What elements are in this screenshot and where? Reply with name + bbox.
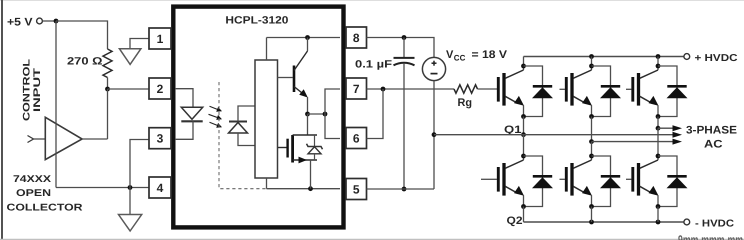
wire buffer output <box>82 138 107 140</box>
svg-text:CC: CC <box>454 53 466 62</box>
node +HVDC terminal <box>684 54 690 60</box>
junction emitter bottom cell 1 <box>521 204 526 209</box>
wire diode branch top cell 3 <box>658 66 677 117</box>
label HCPL-3120 <box>225 15 288 27</box>
wire emitter node to MOSFET drain <box>307 114 309 135</box>
wire internal VCC rail to pin 8 <box>267 37 341 39</box>
svg-text:2: 2 <box>157 82 164 96</box>
junction phase tap cell 3 <box>656 126 661 131</box>
wire pin 5 to VCC return <box>367 188 435 190</box>
wire amp bottom stub <box>266 178 268 189</box>
junction cap top <box>402 35 407 40</box>
wire pin 1 to ground symbol <box>130 39 149 49</box>
wire emitter drop top cell 2 <box>591 105 593 116</box>
wire 3-phase line B <box>592 139 683 145</box>
label COLLECTOR <box>7 202 83 213</box>
junction rail col2 bottom <box>589 220 594 225</box>
wire diode branch bottom cell 3 <box>658 156 677 207</box>
svg-text:3-PHASE: 3-PHASE <box>686 125 737 137</box>
svg-text:1: 1 <box>157 32 164 46</box>
wire emitter drop top cell 3 <box>657 105 659 116</box>
junction emitter top cell 1 <box>521 114 526 119</box>
wire emitter drop bottom cell 3 <box>657 195 659 206</box>
transistor IGBT bottom cell 3 <box>633 160 659 196</box>
wire emitter drop bottom cell 1 <box>523 195 525 206</box>
svg-text:7: 7 <box>353 82 360 96</box>
junction pin4 node <box>128 185 133 190</box>
diode D11 freewheel top <box>532 86 553 98</box>
wire amp to NPN base <box>278 77 293 79</box>
wire to phase line cell 1 <box>523 117 525 135</box>
wire MOSFET source to VEE rail <box>310 160 312 189</box>
svg-text:- HVDC: - HVDC <box>695 219 734 230</box>
junction phase tap cell 1 <box>521 132 526 137</box>
svg-text:= 18 V: = 18 V <box>472 49 508 61</box>
light arrow 3 <box>210 122 223 127</box>
pin 4 <box>149 177 171 198</box>
junction +5V <box>54 19 59 24</box>
junction output riser <box>323 112 328 117</box>
label Q2 <box>507 215 523 227</box>
resistor R1 270ohm <box>103 49 112 78</box>
op-amp U1 HCPL-3120 body outline <box>173 7 343 228</box>
capacitor C1 0.1uF <box>394 58 415 65</box>
svg-text:INPUT: INPUT <box>32 68 43 112</box>
pin 2 <box>149 78 171 99</box>
border frame left <box>1 0 3 240</box>
junction diode branch bottom cell 1 <box>521 154 526 159</box>
diode D13 freewheel top <box>667 86 688 98</box>
label Rg <box>458 97 473 109</box>
pin 6 <box>346 128 367 149</box>
svg-text:0.1 µF: 0.1 µF <box>355 58 393 70</box>
light arrow 2 <box>209 114 223 120</box>
transistor IGBT bottom cell 2 <box>566 160 592 196</box>
svg-text:74XXX: 74XXX <box>13 174 52 185</box>
wire diode branch top cell 2 <box>592 66 611 117</box>
junction diode branch bottom cell 3 <box>656 154 661 159</box>
photodiode D2 <box>229 122 248 134</box>
junction pin2 node <box>105 87 110 92</box>
node control input arrow <box>28 136 34 143</box>
wire gate stub bottom cell 3 <box>626 178 632 180</box>
cropped caption fragment <box>678 233 743 240</box>
svg-text:9mm-mmm-mm: 9mm-mmm-mm <box>678 233 743 240</box>
border frame top <box>0 0 744 2</box>
label CONTROL INPUT <box>22 59 44 121</box>
wire pin 6 riser <box>367 89 384 139</box>
junction diode branch top cell 2 <box>589 64 594 69</box>
wire +5V rail to resistor <box>56 21 108 49</box>
junction phase A tap <box>432 132 437 137</box>
wire pin2 to LED anode <box>175 89 193 108</box>
wire emitter node to output riser <box>308 113 326 115</box>
wire Q2 gate stub <box>481 178 497 180</box>
node -HVDC terminal <box>684 219 690 225</box>
label OPEN <box>16 188 51 199</box>
wire to phase line cell 3 <box>657 117 659 129</box>
wire to phase line cell 2 <box>591 117 593 142</box>
junction rail col3 top <box>656 54 661 59</box>
pin 3 <box>149 128 171 149</box>
diode D21 freewheel bottom <box>532 176 553 188</box>
svg-text:HCPL-3120: HCPL-3120 <box>225 15 288 27</box>
transistor IGBT top cell 3 <box>633 70 659 106</box>
buffer U2 74XXX open-collector gate <box>45 117 82 159</box>
border frame bottom <box>0 238 744 240</box>
wire pin2 node to pin 2 <box>108 88 150 90</box>
wire Rg to Q1 gate <box>478 88 499 90</box>
svg-text:270 Ω: 270 Ω <box>67 56 103 68</box>
wire pin2 node down to buffer output <box>107 89 109 139</box>
svg-text:AC: AC <box>704 139 723 151</box>
wire collector drop top cell 2 <box>591 57 593 71</box>
svg-text:CONTROL: CONTROL <box>22 59 33 121</box>
wire output riser pin7-pin6 <box>325 89 340 139</box>
diode D12 freewheel top <box>600 86 621 98</box>
svg-text:Rg: Rg <box>458 97 473 109</box>
wire 3-phase line A <box>434 132 682 138</box>
junction rail col2 top <box>589 54 594 59</box>
transistor Q4 MOSFET pull-down <box>278 135 317 163</box>
wire +5V to junction <box>43 20 57 22</box>
label + HVDC <box>695 53 738 64</box>
wire resistor to pin2 junction <box>107 78 109 90</box>
wire emitter drop bottom cell 2 <box>591 195 593 206</box>
wire pin 8 to VCC source <box>367 38 435 58</box>
wire gate stub top cell 3 <box>626 88 632 90</box>
junction internal VCC <box>305 35 310 40</box>
junction diode branch top cell 3 <box>656 64 661 69</box>
junction diode branch bottom cell 2 <box>589 154 594 159</box>
wire pin4 net horizontal <box>56 187 149 189</box>
wire to -HVDC rail cell 1 <box>523 207 525 223</box>
wire +HVDC rail <box>524 56 685 58</box>
diode D22 freewheel bottom <box>600 176 621 188</box>
wire to -HVDC rail cell 2 <box>591 207 593 223</box>
wire pin3 riser <box>130 140 149 188</box>
light arrow 1 <box>210 106 223 111</box>
wire cap bottom to VEE rail <box>403 64 405 189</box>
node +5V terminal <box>7 17 42 29</box>
wire to -HVDC rail cell 3 <box>657 207 659 223</box>
junction emitter bottom cell 3 <box>656 204 661 209</box>
wire control input to buffer <box>34 138 46 140</box>
wire diode branch top cell 1 <box>524 66 543 117</box>
wire photodiode anode to amp <box>238 133 255 146</box>
pin 5 <box>346 179 367 200</box>
junction emitter top cell 2 <box>589 114 594 119</box>
svg-text:5: 5 <box>353 182 360 196</box>
wire +5V vertical to pin4 net <box>55 21 57 188</box>
junction phase tap cell 2 <box>589 139 594 144</box>
wire amp top to VCC rail <box>266 38 268 61</box>
diode D23 freewheel bottom <box>667 176 688 188</box>
wire 3-phase line C <box>658 125 682 131</box>
pin 8 <box>346 27 367 48</box>
wire collector drop top cell 3 <box>657 57 659 71</box>
svg-text:+5 V: +5 V <box>7 17 33 29</box>
wire -HVDC rail <box>524 221 685 223</box>
voltage source V1 VCC <box>422 57 445 80</box>
wire VCC source to return rail <box>433 81 435 189</box>
pin 1 <box>149 28 171 49</box>
wire internal VEE rail to pin 5 <box>267 188 341 190</box>
junction rail col3 bottom <box>656 220 661 225</box>
junction emitter top cell 3 <box>656 114 661 119</box>
amplifier block U1a <box>255 60 278 178</box>
wire pin 7 to Rg <box>367 88 455 90</box>
wire gate stub bottom cell 2 <box>560 178 566 180</box>
junction pin7-pin6 tie <box>381 87 386 92</box>
wire collector drop bottom cell 3 <box>657 128 659 160</box>
transistor IGBT top cell 1 <box>498 70 524 106</box>
svg-text:6: 6 <box>353 131 360 145</box>
svg-text:8: 8 <box>353 31 360 45</box>
wire LED cathode to pin3 <box>175 121 193 139</box>
wire emitter drop top cell 1 <box>523 105 525 116</box>
ground symbol input common 2 <box>119 215 142 232</box>
junction internal VEE <box>308 186 313 191</box>
svg-text:4: 4 <box>157 181 164 195</box>
junction NPN emitter node <box>305 112 310 117</box>
transistor Q3 NPN pull-up <box>294 38 308 115</box>
svg-text:V: V <box>446 49 454 61</box>
svg-text:3: 3 <box>157 132 164 146</box>
wire cap top <box>403 38 405 58</box>
wire pin4 node to ground symbol <box>129 188 131 215</box>
wire diode branch bottom cell 1 <box>524 156 543 207</box>
pin 7 <box>346 78 367 99</box>
label 3-PHASE <box>686 125 737 137</box>
junction cap bottom <box>402 187 407 192</box>
resistor R2 Rg <box>454 85 478 93</box>
diode D3 MOSFET body diode <box>307 135 323 160</box>
svg-text:+ HVDC: + HVDC <box>695 53 738 64</box>
transistor IGBT top cell 2 <box>566 70 592 106</box>
ground symbol input common 1 <box>119 49 140 65</box>
LED D1 input <box>181 107 202 121</box>
wire collector drop top cell 1 <box>523 57 525 71</box>
svg-text:OPEN: OPEN <box>16 188 51 199</box>
label VCC = 18 V <box>446 49 508 62</box>
wire diode branch bottom cell 2 <box>592 156 611 207</box>
junction emitter bottom cell 2 <box>589 204 594 209</box>
label AC <box>704 139 723 151</box>
transistor IGBT bottom cell 1 <box>498 160 524 196</box>
wire collector drop bottom cell 2 <box>591 142 593 160</box>
label 0.1 uF <box>355 58 393 70</box>
wire collector drop bottom cell 1 <box>523 135 525 160</box>
label Q1 <box>504 124 522 136</box>
label - HVDC <box>695 219 734 230</box>
junction diode branch top cell 1 <box>521 64 526 69</box>
wire gate stub top cell 2 <box>560 88 566 90</box>
svg-text:Q2: Q2 <box>507 215 523 227</box>
label 74XXX <box>13 174 52 185</box>
label 270 ohm <box>67 56 103 68</box>
svg-text:COLLECTOR: COLLECTOR <box>7 202 83 213</box>
isolation barrier dashed line <box>219 82 267 189</box>
wire photodiode cathode to amp <box>238 106 255 122</box>
